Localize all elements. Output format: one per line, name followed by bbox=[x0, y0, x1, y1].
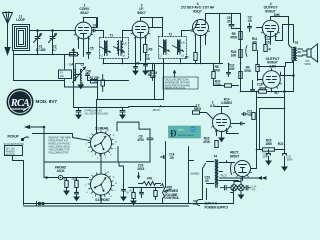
label V2 bbox=[137, 4, 146, 15]
svg-text:T1: T1 bbox=[110, 34, 114, 38]
svg-text:R3: R3 bbox=[149, 48, 153, 52]
svg-text:22K: 22K bbox=[60, 75, 64, 78]
svg-text:LOOP: LOOP bbox=[16, 18, 25, 22]
oscillator coil L3 bbox=[80, 69, 81, 81]
resistor R17 47K zigzag bbox=[139, 177, 161, 186]
svg-text:TERMS OF B VALUE: TERMS OF B VALUE bbox=[165, 87, 186, 90]
capacitor C10 det bbox=[227, 64, 235, 77]
wire: T1 to V2 grid bbox=[123, 31, 133, 41]
capacitor C18 bbox=[139, 188, 144, 198]
wire: mid vertical drops bbox=[97, 64, 164, 134]
svg-text:MOD. 8V7: MOD. 8V7 bbox=[36, 99, 58, 104]
ground C7 bbox=[143, 69, 148, 75]
wire: B+ from rect bbox=[251, 92, 285, 169]
wire: V1 plate to T1 bbox=[92, 18, 104, 38]
svg-text:.05: .05 bbox=[205, 179, 209, 183]
svg-text:2M: 2M bbox=[152, 75, 157, 79]
RCA logo bbox=[7, 89, 34, 116]
node A B arrows bbox=[259, 177, 267, 179]
switch S2 bbox=[197, 164, 206, 176]
wire: B+ right rail bbox=[258, 61, 294, 98]
capacitor C11 bbox=[242, 110, 256, 120]
wire: heater row y177.5 bbox=[220, 177, 259, 179]
resistor R10 bbox=[214, 80, 239, 88]
wire: vertical x165 under watermark bbox=[166, 142, 189, 188]
speaker bbox=[303, 44, 318, 66]
IF transformer T2 bbox=[159, 33, 187, 59]
tube pin stubs bbox=[74, 31, 282, 179]
capacitor C12 bbox=[241, 122, 245, 125]
svg-text:470K: 470K bbox=[203, 140, 211, 144]
ground arrow below antenna bbox=[5, 45, 10, 55]
trimmer capacitor C1 bbox=[34, 31, 42, 44]
wire: V5 connections bbox=[241, 69, 294, 92]
label 117V bbox=[205, 202, 230, 210]
wire: jack wiring bbox=[44, 177, 89, 179]
electrolytic C15b bbox=[282, 150, 293, 171]
capacitor C3 osc bbox=[86, 70, 92, 81]
capacitor C7 bbox=[144, 54, 150, 69]
svg-text:.005: .005 bbox=[229, 67, 235, 71]
rotary switch S1 FRONT bbox=[85, 170, 118, 202]
svg-text:6SK7: 6SK7 bbox=[137, 11, 146, 15]
resistor R2 bbox=[90, 76, 101, 83]
wire: osc box leads bbox=[65, 64, 84, 81]
wire: long horizontal y106 bbox=[129, 106, 197, 108]
node dot at C1 top bbox=[37, 30, 39, 32]
svg-text:CONTROL: CONTROL bbox=[165, 196, 180, 200]
svg-text:470K: 470K bbox=[214, 83, 222, 87]
wire: V1 pins down bbox=[79, 37, 89, 57]
capacitor C17 bbox=[74, 190, 79, 201]
wire: bus y80 continues bbox=[14, 80, 129, 82]
wire: avc row bbox=[195, 61, 197, 64]
capacitor C12b bbox=[265, 37, 271, 44]
wire: R1 leads bbox=[65, 55, 79, 68]
wire: pickup line into S1R bbox=[33, 134, 90, 141]
arrow through osc coils bbox=[73, 67, 86, 83]
svg-text:470K: 470K bbox=[230, 36, 238, 40]
svg-text:T4: T4 bbox=[214, 155, 218, 159]
tube V6 2nd AF bbox=[210, 101, 231, 132]
arrow into note bbox=[173, 71, 175, 78]
trimmer capacitor C2 bbox=[49, 31, 57, 44]
power transformer T4 bbox=[207, 155, 227, 188]
label L1 bbox=[16, 15, 25, 23]
tube V1 12SA7 converter bbox=[75, 22, 92, 39]
antenna bbox=[3, 12, 13, 45]
wire: osc bottom tie bbox=[65, 81, 98, 100]
resistor R1 bbox=[70, 49, 78, 56]
capacitor C19 bbox=[119, 162, 129, 201]
svg-text:1000: 1000 bbox=[265, 142, 272, 146]
resistor R6 bbox=[230, 32, 242, 40]
label V1 bbox=[79, 4, 89, 15]
dial lamp I2 bbox=[238, 185, 244, 191]
wire: V3 plate up bbox=[206, 14, 241, 24]
wire: rect filament bbox=[227, 163, 243, 181]
wire: vertical x149.5 bbox=[149, 129, 151, 162]
phono jack bbox=[55, 166, 67, 180]
wire: C12 row bbox=[227, 124, 241, 134]
resistor R20 bbox=[63, 178, 70, 195]
svg-text:R22: R22 bbox=[278, 142, 284, 146]
svg-text:.05: .05 bbox=[170, 156, 174, 160]
label C2 bbox=[52, 45, 57, 52]
svg-text:.05: .05 bbox=[266, 40, 270, 44]
wire: V6 grid left bbox=[200, 107, 229, 119]
wire: V2 top cap bbox=[141, 18, 153, 28]
junction dots top buses bbox=[83, 13, 286, 151]
svg-text:.0015: .0015 bbox=[137, 167, 145, 171]
svg-text:6X5GT: 6X5GT bbox=[230, 155, 240, 159]
tube V7 rectifier bbox=[231, 161, 251, 177]
resistor R8 det load bbox=[212, 64, 221, 81]
wire: V2 plate to T2 bbox=[149, 18, 163, 37]
capacitor C10 grid V4 bbox=[257, 13, 280, 28]
ground below lamps bbox=[239, 191, 244, 199]
resistor R11 cathode bbox=[264, 45, 272, 52]
svg-text:947: 947 bbox=[274, 91, 279, 95]
wire: V2 pins bbox=[136, 36, 146, 61]
capacitor C9 top right bbox=[248, 16, 252, 32]
oscillator coil L4 bbox=[75, 69, 76, 81]
label IF note bbox=[85, 110, 109, 116]
label C16 bbox=[137, 164, 145, 172]
svg-text:C5: C5 bbox=[90, 47, 94, 51]
svg-text:2.2MEG: 2.2MEG bbox=[221, 101, 232, 105]
resistor R5 symbol bbox=[151, 64, 154, 81]
capacitor C7b bypass bbox=[120, 108, 125, 119]
volume control R18 bbox=[161, 184, 180, 204]
dial lamp I1 bbox=[231, 185, 237, 191]
svg-text:S1 FRONT: S1 FRONT bbox=[95, 198, 110, 202]
electrolytic C15a bbox=[263, 150, 272, 165]
tube V5 output2 bbox=[263, 71, 281, 89]
svg-text:schematics: schematics bbox=[178, 133, 194, 137]
svg-text:FOLLOWING POS.: FOLLOWING POS. bbox=[49, 152, 70, 155]
AC plug bbox=[194, 173, 207, 206]
wire: bus risers bbox=[101, 189, 234, 205]
wire: V4 pins bbox=[266, 34, 283, 45]
svg-text:Ð: Ð bbox=[170, 129, 177, 139]
wire: det rail x219 bbox=[219, 14, 221, 64]
capacitor C8 bbox=[227, 14, 241, 29]
svg-text:R2 22K: R2 22K bbox=[90, 76, 101, 80]
label V5 bbox=[266, 57, 281, 69]
tube V3 6SQ7 det-avc-af bbox=[193, 20, 209, 36]
capacitor C7a bypass bbox=[76, 108, 81, 119]
resistor R3 bbox=[144, 45, 153, 53]
wire: bus y161.5 bbox=[44, 161, 150, 163]
resistor R23 bbox=[94, 75, 105, 92]
resistor R24 bbox=[231, 46, 247, 58]
svg-text:A.F.: A.F. bbox=[210, 104, 215, 108]
svg-text:6SA7: 6SA7 bbox=[80, 11, 89, 15]
svg-text:PICKUP: PICKUP bbox=[8, 135, 20, 139]
note text block oscilloscope bbox=[163, 77, 198, 90]
wire: screen feed bbox=[283, 25, 294, 43]
svg-text:.05: .05 bbox=[146, 57, 150, 61]
resistor box R1b bbox=[59, 70, 72, 79]
resistor R9 avc bbox=[239, 66, 252, 79]
capacitor C24 bbox=[244, 186, 257, 192]
resistor R8 bbox=[193, 104, 202, 115]
ground under L3 bbox=[78, 81, 83, 89]
wire: V6 pins bbox=[217, 129, 227, 138]
svg-text:RCA: RCA bbox=[10, 98, 30, 109]
svg-text:C20: C20 bbox=[86, 70, 92, 74]
resistor R14 bbox=[154, 188, 157, 200]
label R14 bbox=[221, 98, 232, 105]
wire: avc bus y63 bbox=[104, 63, 223, 65]
svg-text:6SQ7: 6SQ7 bbox=[193, 9, 202, 13]
svg-text:4-7: 4-7 bbox=[52, 48, 57, 52]
svg-text:30MF: 30MF bbox=[287, 159, 294, 162]
wire: V1 top cap bbox=[84, 18, 97, 28]
svg-text:MOTOR: MOTOR bbox=[6, 154, 15, 157]
capacitor C23 bbox=[205, 176, 211, 183]
tube V2 12SK7 IF bbox=[132, 21, 149, 38]
label 455KC bbox=[153, 105, 163, 113]
svg-text:.05: .05 bbox=[248, 113, 252, 117]
svg-text:.05: .05 bbox=[248, 19, 252, 23]
note text block remove wire bbox=[49, 137, 72, 155]
wire: R3 down bbox=[145, 53, 147, 64]
wire: bottom bus bbox=[24, 204, 234, 207]
wire: row y187 bbox=[129, 187, 163, 189]
wire: T1 bottoms bbox=[104, 59, 123, 64]
capacitor C4 at V1 plate bbox=[92, 24, 98, 32]
wire: right rail x240 bbox=[223, 14, 241, 92]
svg-text:1M: 1M bbox=[147, 73, 152, 77]
wire: V3 pins bbox=[196, 34, 206, 64]
svg-text:.05: .05 bbox=[227, 20, 231, 24]
svg-text:470K: 470K bbox=[244, 69, 252, 73]
wire: bottom return bus y54 bbox=[14, 44, 76, 55]
svg-text:T5: T5 bbox=[295, 41, 299, 45]
rotary switch S1 REAR bbox=[85, 127, 118, 161]
wire: S1R to S1F bbox=[100, 154, 102, 174]
phono pickup bbox=[8, 135, 29, 142]
connector on bus bbox=[37, 201, 45, 206]
wire: pickup to jack riser bbox=[26, 126, 45, 178]
label C18 bbox=[152, 71, 158, 79]
svg-text:10K: 10K bbox=[231, 54, 237, 58]
wire: heater bus y107 bbox=[74, 49, 129, 108]
tube V4 output bbox=[262, 20, 278, 36]
wire: arrow drop bbox=[138, 173, 140, 179]
svg-text:own: own bbox=[178, 128, 184, 132]
svg-text:JACK: JACK bbox=[56, 169, 65, 173]
wire: V4 plate to T5 bbox=[271, 17, 289, 43]
wire: motor down to bus bbox=[13, 156, 24, 205]
resistor R19 300ohm bbox=[259, 87, 267, 94]
wire: S1R contact riser bbox=[117, 147, 119, 163]
wire: T2 bottoms bbox=[164, 59, 181, 64]
capacitor C5 bbox=[87, 47, 94, 59]
node dot at C2 top bbox=[52, 30, 54, 32]
phono motor box bbox=[4, 143, 25, 157]
capacitor C13 bbox=[251, 81, 263, 91]
svg-text:4700: 4700 bbox=[137, 138, 144, 142]
wire: riser to lamps bbox=[234, 178, 241, 185]
capacitor C9b 4700 bbox=[137, 135, 153, 143]
L1 loop antenna bbox=[13, 25, 30, 51]
watermark plate bbox=[169, 126, 201, 139]
label C1 bbox=[36, 45, 46, 52]
svg-text:POWER SUPPLY: POWER SUPPLY bbox=[205, 206, 230, 210]
resistor R7 bbox=[185, 53, 197, 61]
label V3 bbox=[181, 2, 215, 13]
svg-text:SPKR: SPKR bbox=[305, 63, 311, 66]
resistor R5 bbox=[147, 70, 152, 77]
wire: osc section joins bbox=[65, 75, 100, 87]
svg-text:PILOT: PILOT bbox=[221, 175, 228, 178]
capacitor C25 bbox=[221, 186, 231, 191]
wire: right bracket x188 bbox=[189, 161, 194, 204]
IF transformer T1 bbox=[100, 34, 129, 59]
label RECT bbox=[230, 151, 240, 159]
wire: S1R to C9 route bbox=[117, 122, 150, 131]
resistor R16 bbox=[203, 137, 218, 148]
wire: T2 to V3 grid cap curve bbox=[182, 21, 198, 37]
ground V6 cathode bbox=[219, 138, 224, 142]
resistor R13 bbox=[130, 188, 137, 205]
resistor R12c bbox=[256, 51, 259, 81]
wire: loop x259 bbox=[260, 109, 285, 150]
label V4 bbox=[264, 2, 279, 13]
resistor R11b bbox=[252, 37, 258, 51]
wire: left drop to oscillator row bbox=[14, 55, 65, 81]
svg-text:47K: 47K bbox=[147, 177, 153, 181]
svg-text:455 KC: 455 KC bbox=[153, 109, 161, 112]
svg-text:L4: L4 bbox=[70, 63, 74, 67]
capacitor C6 bbox=[133, 51, 140, 75]
output transformer T5 bbox=[286, 17, 303, 67]
svg-text:T2: T2 bbox=[169, 33, 173, 37]
capacitor C14 bbox=[161, 153, 175, 161]
svg-text:R7: R7 bbox=[185, 56, 189, 60]
resistor R21 bbox=[72, 178, 79, 190]
resistor R15 bbox=[263, 139, 284, 152]
wire: loop top to converter grid bbox=[30, 30, 76, 32]
wire: right rail down bbox=[257, 98, 285, 150]
